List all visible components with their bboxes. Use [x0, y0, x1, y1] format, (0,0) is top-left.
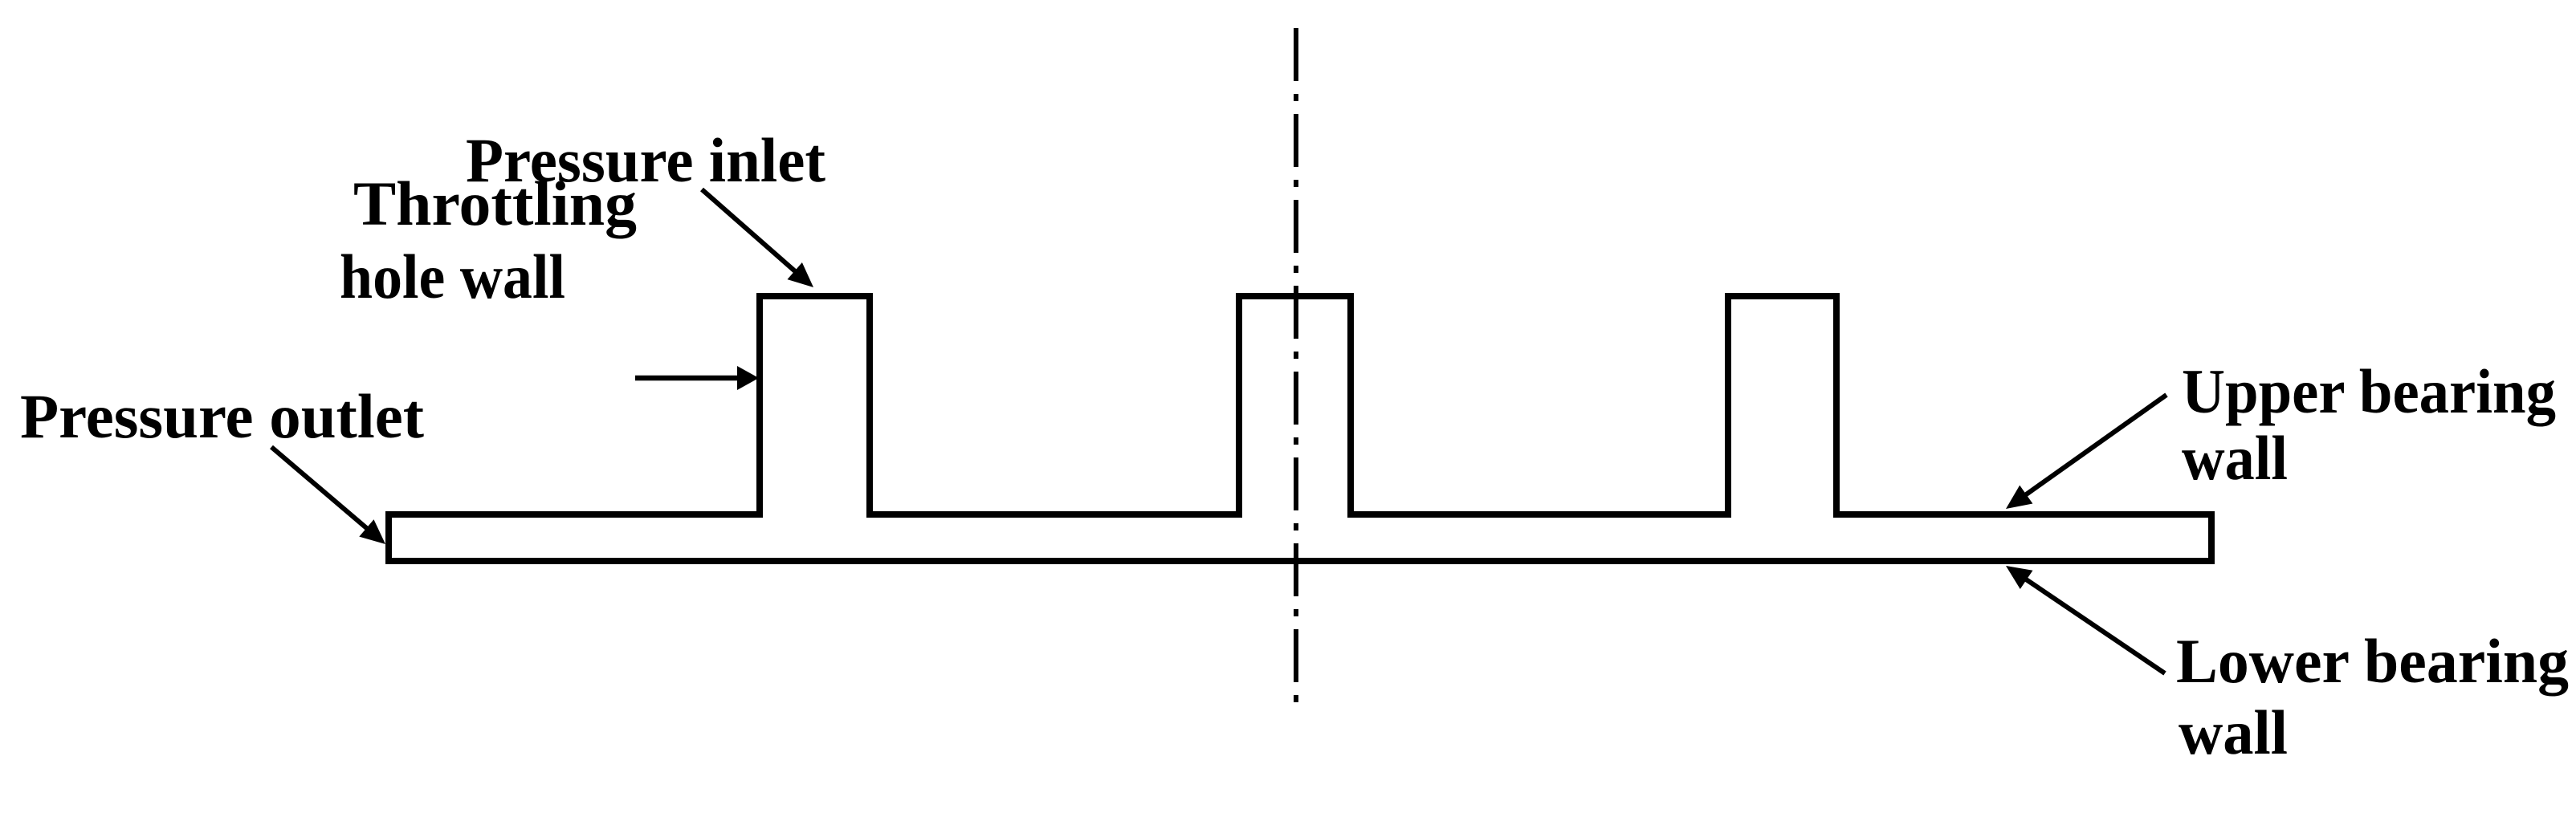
svg-text:Upper bearing: Upper bearing [2182, 356, 2556, 426]
arrow: pressure inlet [702, 189, 813, 287]
arrow: throttling hole wall [635, 366, 759, 390]
svg-text:wall: wall [2182, 423, 2288, 493]
arrow: upper bearing wall [2006, 395, 2166, 509]
arrow: lower bearing wall [2006, 566, 2165, 673]
bearing profile outline (upper bearing wall with three throttling holes) [389, 296, 2211, 561]
svg-text:hole wall: hole wall [340, 242, 565, 311]
svg-text:wall: wall [2179, 697, 2288, 767]
center line (dash-dot axis) [1294, 28, 1298, 714]
svg-text:Pressure outlet: Pressure outlet [20, 381, 424, 451]
svg-text:Lower bearing: Lower bearing [2176, 626, 2569, 696]
svg-text:Throttling: Throttling [353, 169, 637, 238]
arrow: pressure outlet [271, 447, 385, 544]
